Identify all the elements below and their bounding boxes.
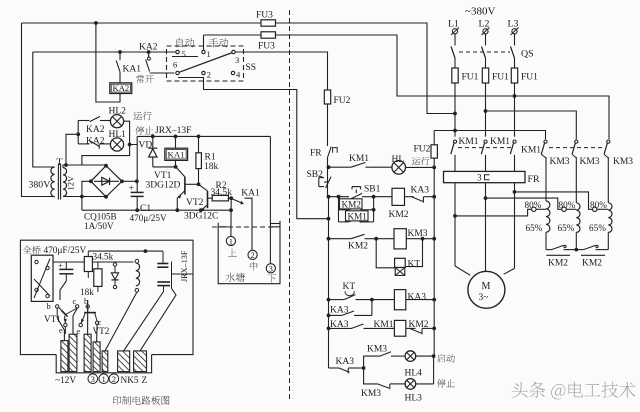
transformer T primary coil 380V (51, 167, 55, 197)
label shang (upper) (228, 249, 237, 257)
svg-text:HL4: HL4 (405, 368, 423, 378)
dashed PCB right boundary (289, 10, 291, 402)
wire ladder right rail (433, 158, 435, 356)
wire KM3-2 to winding 2 (572, 154, 576, 158)
svg-text:KA1: KA1 (123, 65, 142, 75)
wire KM3-1 to winding 1 (541, 154, 546, 158)
svg-text:KA2: KA2 (86, 125, 105, 135)
label yun-xing (running) (134, 112, 152, 121)
svg-text:KM3: KM3 (613, 157, 633, 167)
node KA1 coil tap (174, 135, 178, 139)
svg-text:3: 3 (477, 173, 482, 183)
svg-text:18k: 18k (204, 162, 219, 172)
label quan-qiao (full bridge) (23, 246, 41, 255)
svg-text:+: + (58, 260, 63, 270)
svg-text:KA3: KA3 (330, 306, 349, 316)
fuse FU2 right (433, 131, 435, 145)
wire motor phase U (454, 183, 456, 266)
svg-text:VT1: VT1 (154, 171, 172, 181)
wire motor phase V (485, 183, 487, 272)
svg-text:L1: L1 (448, 19, 459, 30)
contact KA3 interlock rung2 (412, 196, 414, 198)
lamp HL1 (110, 138, 123, 151)
PCB fan-out wires (56, 308, 58, 318)
contact KM2 hold (339, 209, 349, 211)
node R2/KA1 probe (229, 196, 233, 200)
lamp HL run (392, 161, 406, 175)
wire secondary-top riser to lamp rail (66, 134, 78, 165)
switch QS pole L2 (482, 47, 486, 59)
switch QS pole L3 (511, 47, 515, 59)
rung1: contact KM1 run lamp (327, 165, 331, 169)
svg-text:SS: SS (246, 63, 257, 73)
label yunxing run lamp (412, 157, 430, 165)
start lamp branch (364, 356, 380, 368)
junction KA2 tap (147, 50, 151, 54)
PCB resistor 34.5k (87, 251, 89, 256)
electrode terminal 1 (226, 236, 235, 245)
svg-text:HL2: HL2 (109, 107, 127, 117)
coil KM1 (394, 320, 405, 336)
watermark toutiao dianggong jishu (512, 382, 636, 400)
svg-text:KM3: KM3 (550, 157, 570, 167)
svg-text:KA3: KA3 (336, 357, 355, 367)
svg-text:KM1: KM1 (349, 154, 369, 164)
label shui-tang (pond) (226, 273, 246, 282)
transformer secondary coil 12V (63, 168, 67, 197)
wire emitter rail (82, 209, 231, 211)
svg-text:3DG12C: 3DG12C (184, 211, 218, 221)
svg-text:KA2: KA2 (139, 43, 158, 53)
wire ladder left rail mid (328, 197, 329, 368)
svg-text:3DG12D: 3DG12D (146, 181, 181, 191)
wire L1 column (454, 83, 456, 137)
svg-text:2: 2 (112, 375, 116, 384)
svg-text:SB1: SB1 (364, 185, 381, 195)
svg-text:KM1: KM1 (348, 211, 368, 221)
svg-text:470μF/25V: 470μF/25V (44, 246, 87, 256)
node SS feed joins rail (327, 217, 331, 221)
contact KM2 star 2 (576, 249, 583, 251)
svg-text:1A/50V: 1A/50V (84, 221, 114, 231)
wire L1 feed top (22, 23, 456, 114)
svg-text:80%: 80% (590, 200, 607, 210)
lamp rungs: contact KA3 (329, 367, 340, 369)
svg-text:80%: 80% (525, 200, 542, 210)
rung3: KM3 coil + KT (327, 237, 331, 241)
SS bar under pin 2 (178, 77, 204, 79)
coil KM2 (374, 196, 392, 198)
junction top-left (94, 21, 98, 25)
svg-text:1: 1 (207, 49, 211, 59)
svg-text:QS: QS (521, 49, 534, 60)
svg-text:KM3: KM3 (408, 229, 428, 239)
svg-text:KA1: KA1 (168, 150, 185, 160)
svg-text:3~: 3~ (479, 293, 489, 303)
contact KA3 self-hold (327, 314, 331, 318)
fuse FU1 L3 (511, 68, 517, 83)
svg-text:Z: Z (142, 376, 148, 386)
contact KM1 hold (339, 221, 349, 223)
SS pin 1 (202, 50, 205, 53)
wire ladder left rail upper (327, 104, 329, 146)
svg-text:NK5: NK5 (121, 376, 139, 386)
svg-text:FU1: FU1 (462, 73, 479, 83)
PCB link to module edge (171, 262, 173, 289)
wire KA2 coil return (96, 23, 120, 102)
svg-text:KA1: KA1 (241, 189, 260, 199)
svg-text:T: T (57, 157, 63, 168)
timer KT branch (376, 239, 395, 268)
PCB transistor VT2 symbol (87, 308, 89, 312)
svg-text:5: 5 (182, 49, 186, 59)
contact KA2 (lamp HL2 branch) (90, 116, 100, 121)
svg-text:~380V: ~380V (465, 6, 495, 18)
thermal relay FR heater box (444, 171, 526, 182)
label shou-dong (manual) (209, 38, 228, 47)
tap terminal 2 (562, 207, 566, 211)
node R1/VT2 collector (197, 182, 201, 186)
svg-text:FU1: FU1 (521, 73, 538, 83)
wire HL to right rail (406, 166, 435, 168)
stop lamp branch (364, 368, 378, 384)
SS moving blade 6-3 (179, 53, 232, 73)
label xia (lower) (267, 274, 276, 282)
PCB wire top rail (88, 250, 163, 252)
svg-text:KT: KT (343, 282, 356, 292)
KM3 linkage dashed (549, 147, 604, 149)
wire HL2 right drop (124, 121, 130, 144)
bridge rectifier diamond (91, 166, 122, 197)
rung2: start/stop (327, 195, 331, 199)
pushbutton SB1 start (352, 186, 361, 188)
wire FU2/KM3-1 feed (434, 131, 545, 140)
svg-text:FU1: FU1 (492, 73, 509, 83)
svg-text:KM1: KM1 (521, 146, 541, 156)
fuse FU3 (second) (261, 32, 276, 38)
dashed PCB bottom boundary (212, 226, 278, 228)
svg-text:470μ/25V: 470μ/25V (130, 213, 167, 223)
svg-text:L3: L3 (508, 19, 519, 30)
svg-text:c: c (73, 296, 77, 306)
svg-text:HL1: HL1 (109, 130, 127, 140)
PCB capacitor 470uF (65, 262, 67, 269)
wire L2 to KM3-2 (486, 111, 577, 139)
junction KA1 tap (118, 50, 122, 54)
contact FR thermal (328, 147, 332, 158)
SS bar under pin 5 (172, 56, 198, 58)
wire motor phase W (514, 183, 516, 269)
contact KA1 (normally open, vertical) (119, 52, 121, 60)
svg-text:KM2: KM2 (409, 320, 429, 330)
svg-text:FU3: FU3 (258, 42, 275, 52)
svg-text:380V: 380V (29, 180, 51, 191)
contact KA2 (lamp HL1 branch) (90, 141, 100, 147)
svg-text:HL: HL (392, 155, 405, 165)
wire L3 feed (manual) (204, 35, 610, 139)
svg-text:KA3: KA3 (411, 186, 430, 196)
transistor VT2 (199, 185, 208, 191)
svg-text:FR: FR (310, 149, 322, 159)
svg-text:VT2: VT2 (186, 198, 204, 208)
wire auto rail y52 (33, 51, 176, 53)
svg-text:65%: 65% (589, 223, 606, 233)
PCB diode (113, 263, 116, 266)
resistor R1 18k (198, 136, 200, 152)
svg-text:2: 2 (251, 251, 255, 260)
wire L3 column (514, 83, 516, 137)
svg-text:KM1: KM1 (374, 320, 394, 330)
electrode terminal 2 (248, 250, 257, 259)
tap wire phase W to 80% tap 3 (515, 192, 593, 209)
svg-text:KT: KT (408, 260, 421, 270)
wire lamp node Z-route to AC rail (82, 145, 130, 166)
label qi-dong (start) (437, 354, 455, 363)
SS pin 5 (176, 50, 179, 53)
tap wire phase V to 80% tap 2 (486, 198, 562, 209)
fuse FU1 L1 (452, 68, 458, 83)
stub arrow at plus-rail bottom (270, 223, 280, 225)
caption yin-zhi-dian-lu-ban-tu (PCB layout) (113, 396, 170, 405)
svg-text:L2: L2 (479, 19, 490, 30)
label chang-kai (normally open) (136, 75, 154, 83)
contact KA2 (to SS pin 6) (148, 52, 150, 57)
PCB resistor 18k (97, 262, 99, 269)
wire SS pin2 to ladder (204, 78, 329, 219)
svg-text:KM2: KM2 (342, 199, 362, 209)
wire KM3-3 to winding 3 (604, 154, 608, 158)
resistor R2 34.5k (212, 195, 228, 201)
contact KA1 (probe select) (233, 199, 244, 204)
svg-text:65%: 65% (558, 223, 575, 233)
contactor KM1 main contacts (453, 140, 456, 143)
coil KA3 (372, 299, 395, 301)
node secondary bottom (80, 195, 84, 199)
wire plus rail JRX (137, 135, 270, 137)
capacitor C1 (136, 181, 138, 192)
wire AC rail to bridge top (66, 164, 106, 166)
wire plus riser to JRX rail (136, 145, 138, 182)
coil KM3 (376, 238, 394, 240)
wire lamp node to plus rail (130, 136, 138, 144)
label zhong (middle) (250, 262, 258, 271)
wire lamp bottom branch (77, 134, 79, 144)
svg-text:34.5k: 34.5k (211, 188, 233, 198)
label ting-zhi stop lamp (437, 379, 455, 388)
svg-text:3: 3 (269, 265, 273, 274)
wire left rail to transformer primary bottom (22, 23, 52, 197)
svg-text:80%: 80% (559, 200, 576, 210)
PCB relay contact upper (162, 251, 164, 263)
tap wire phase U to 80% tap 1 (455, 209, 532, 216)
svg-text:12V: 12V (66, 175, 76, 191)
contact KM2 interlock (410, 328, 422, 333)
wire lamp top branch (77, 121, 79, 135)
svg-text:3: 3 (235, 55, 239, 65)
svg-text:JRX–13F: JRX–13F (155, 126, 191, 136)
wire bridge left vertex link (82, 181, 91, 210)
SS pin 6 (176, 71, 179, 74)
svg-text:JRX–13F: JRX–13F (180, 250, 189, 282)
svg-text:1: 1 (229, 237, 233, 246)
winding 2 (576, 203, 580, 233)
boxed label KM2 hold (340, 199, 363, 209)
KM2 star bars (546, 254, 570, 256)
PCB wire mid rail (53, 261, 134, 263)
svg-text:KM2: KM2 (389, 210, 409, 220)
svg-text:FU2: FU2 (334, 96, 351, 106)
relay coil KA2 box (110, 83, 132, 94)
transformer core (57, 164, 59, 200)
node lamp right (128, 143, 132, 147)
contactor KM3 contacts (544, 140, 547, 143)
wire hold branch right (373, 197, 375, 222)
PCB module outline (20, 240, 193, 354)
svg-text:KM2: KM2 (348, 242, 368, 252)
PCB relay coil (135, 259, 139, 263)
node R1 tap (197, 135, 201, 139)
svg-text:b: b (47, 301, 51, 311)
wire secondary bottom rail (63, 196, 106, 198)
svg-text:+: + (129, 184, 134, 194)
boxed label KM1 hold (346, 211, 369, 221)
lamp HL2 (110, 115, 123, 128)
pond tank (218, 223, 280, 284)
svg-text:KM3: KM3 (361, 389, 381, 399)
PCB bridge block (31, 255, 53, 301)
wire SS pin1 riser (203, 35, 205, 50)
svg-text:SB2: SB2 (307, 170, 324, 180)
coil KT with delay element (395, 258, 406, 267)
label ting-zhi (stop) (135, 126, 153, 135)
relay coil KA1 box (175, 136, 177, 148)
svg-text:KA2: KA2 (86, 137, 105, 147)
node VD tap (151, 135, 155, 139)
lamp HL4 (405, 351, 416, 362)
rung4: KT delayed contact + KA3 coil (327, 298, 331, 302)
svg-text:FR: FR (528, 174, 540, 185)
svg-text:HL3: HL3 (405, 394, 423, 404)
svg-text:34.5k: 34.5k (93, 252, 114, 262)
svg-text:KM1: KM1 (459, 137, 479, 147)
fuse FU1 L2 (482, 68, 488, 83)
PCB transistor VT1 symbol (59, 308, 64, 313)
svg-text:FU2: FU2 (414, 145, 431, 155)
svg-text:KM2: KM2 (548, 258, 568, 268)
label zi-dong (auto) (177, 38, 195, 47)
lamp HL3 (405, 379, 416, 390)
wire hold branch left (338, 197, 340, 222)
svg-text:KM2: KM2 (582, 258, 602, 268)
QS dashed linkage (459, 51, 510, 53)
wire electrode 3 from plus rail (269, 136, 271, 263)
svg-text:1: 1 (102, 375, 106, 384)
SS pin 2 (202, 71, 205, 74)
svg-text:3: 3 (91, 375, 95, 384)
transistor VT1 (176, 168, 185, 177)
svg-text:~12V: ~12V (55, 376, 76, 386)
tap terminal 3 (593, 207, 597, 211)
electrode terminal 3 (266, 264, 275, 273)
svg-text:KA3: KA3 (408, 293, 427, 303)
fuse FU2 (left) (324, 90, 330, 104)
svg-text:R1: R1 (205, 153, 216, 163)
wire right rail lamp segment (433, 356, 435, 384)
wire VD/KA1 bottom to VT1 collector (153, 166, 176, 168)
contact KM2 star 1 (546, 249, 552, 251)
svg-text:KA3: KA3 (330, 320, 349, 330)
svg-text:FU3: FU3 (256, 11, 273, 21)
svg-text:VT1: VT1 (44, 314, 61, 324)
wire electrode 1 (230, 198, 232, 236)
PCB relay contact lower (157, 281, 170, 283)
svg-text:KM3: KM3 (367, 345, 387, 355)
selector switch SS dashed box (167, 46, 244, 81)
svg-text:KA2: KA2 (113, 83, 130, 93)
svg-text:2: 2 (207, 70, 211, 80)
pushbutton SB2 stop (319, 177, 324, 179)
wire SS pin3 to FU2a (235, 52, 327, 90)
wire bridge plus rail (122, 180, 137, 182)
motor M (468, 271, 505, 308)
node lamp left (76, 132, 80, 136)
svg-text:KM3: KM3 (580, 157, 600, 167)
SS pin 4 (231, 71, 234, 74)
svg-text:VT2: VT2 (93, 326, 110, 336)
node secondary top (64, 163, 68, 167)
KM1 linkage dashed (458, 147, 511, 149)
switch QS pole L1 (451, 47, 455, 59)
winding 1 (80%/65% taps) (546, 201, 550, 232)
SS pin 3 (232, 50, 235, 53)
svg-text:6: 6 (173, 60, 177, 70)
contact KT delayed close (344, 295, 356, 300)
rung5: KM1 coil (327, 327, 331, 331)
svg-text:M: M (482, 281, 491, 292)
fuse FU3 (top) (261, 20, 276, 26)
hatched pads (61, 341, 68, 372)
wire L2 column (485, 83, 487, 137)
wire auto rail drop to primary top (33, 52, 51, 167)
tap terminal 1 (532, 207, 536, 211)
svg-text:VD: VD (139, 141, 153, 151)
wire winding bottoms (545, 232, 547, 249)
PCB transistor terminals (56, 305, 59, 308)
diode VD (152, 136, 154, 148)
winding 3 (608, 203, 612, 233)
svg-text:KM1: KM1 (490, 137, 510, 147)
svg-text:65%: 65% (526, 223, 543, 233)
